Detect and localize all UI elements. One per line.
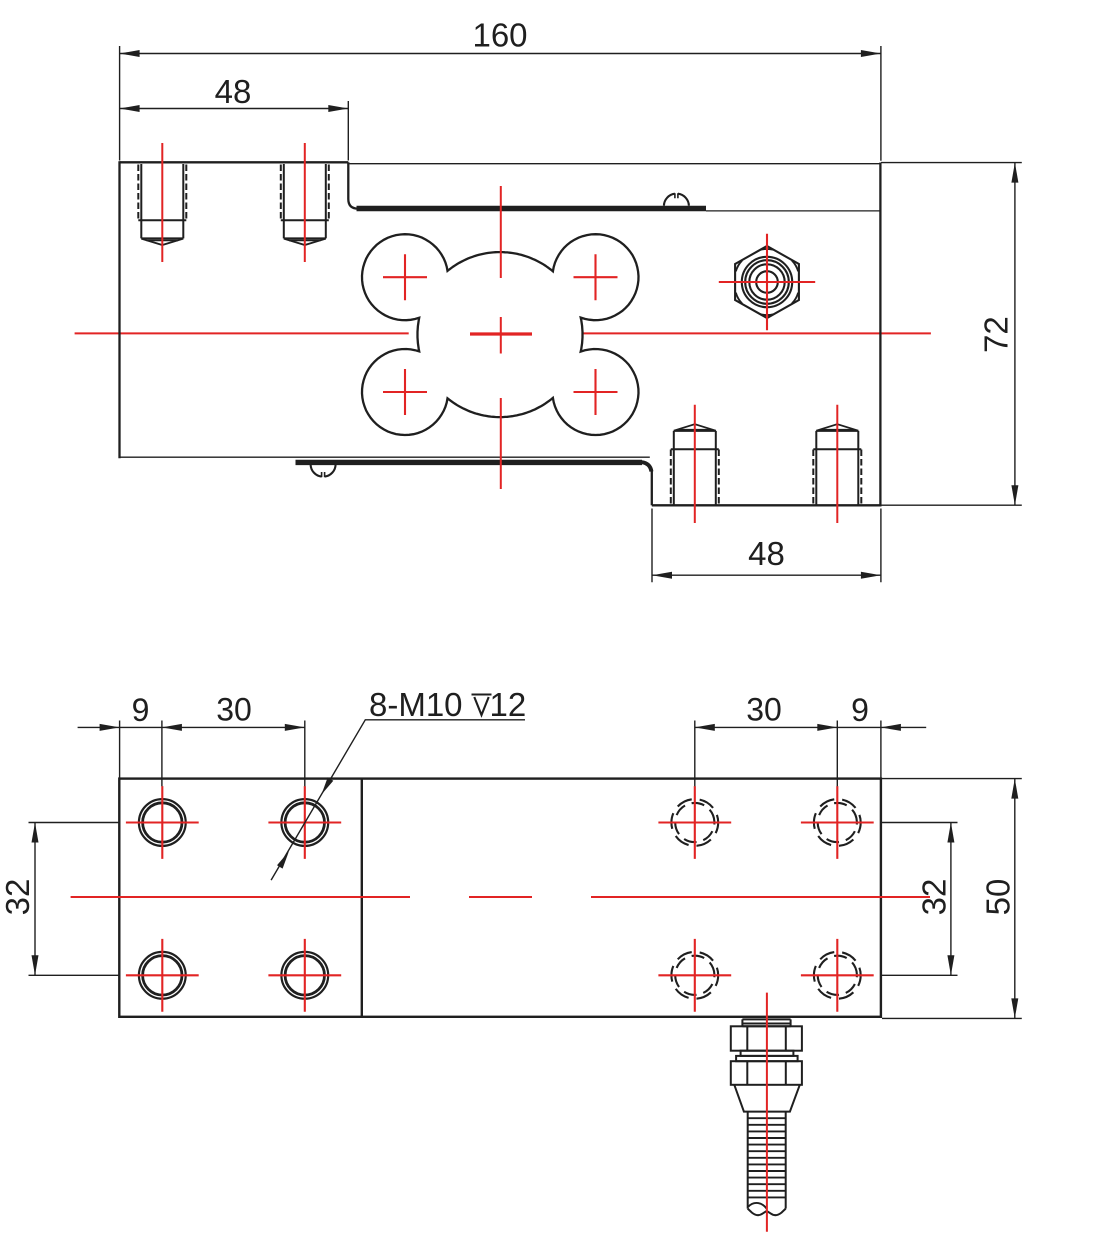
- body outline left block of side view: [120, 161, 882, 505]
- internal edge line of plan view: [361, 779, 363, 1017]
- cable seal bump on bottom slot: [311, 465, 336, 478]
- hidden hole plan top-right 2: [814, 799, 861, 846]
- centerline cross clover top-left hole: [383, 254, 427, 300]
- cable gland connector assembly below plan view: [731, 1019, 802, 1215]
- clover flexure cutout: [362, 234, 639, 435]
- centerline cross on gland nut: [719, 234, 815, 331]
- dimension 9 and 30 plan top-left: [78, 721, 305, 787]
- mounting screw left 2 (side view): [281, 164, 329, 245]
- hidden hole plan bottom-right 2: [814, 952, 861, 999]
- bottom gap slot thick bar: [296, 460, 643, 465]
- hidden hole plan bottom-right 1: [671, 952, 718, 999]
- hidden hole plan top-right 1: [671, 799, 718, 846]
- dimension 50 plan right overall: [882, 779, 1022, 1019]
- red horizontal centerline of plan view: [71, 896, 930, 898]
- dimension 48 bottom right: [652, 509, 881, 583]
- depth symbol: [472, 695, 492, 716]
- svg-text:50: 50: [980, 879, 1017, 916]
- svg-text:12: 12: [490, 686, 527, 723]
- bottom edge of left block (thin): [120, 456, 650, 458]
- svg-text:9: 9: [132, 692, 150, 728]
- cable gland hex nut (top view): [735, 246, 799, 318]
- top surface thin line of right block: [350, 163, 881, 165]
- tapped hole plan top-left 1: [139, 799, 186, 846]
- dimension 72 right height: [881, 163, 1022, 506]
- dimension 30 and 9 plan top-right: [695, 721, 926, 787]
- top gap slot thick bar: [357, 206, 707, 212]
- mounting screw right 2 (side view): [813, 424, 861, 505]
- dimension 160 top overall: [120, 46, 881, 161]
- dimension 32 plan left: [29, 823, 120, 976]
- svg-text:9: 9: [851, 692, 869, 728]
- centerline cross clover bottom-left hole: [383, 369, 427, 415]
- tapped hole plan top-left 2: [281, 799, 328, 846]
- svg-text:48: 48: [215, 73, 252, 110]
- dimension 32 plan right inner: [882, 823, 958, 976]
- svg-text:8-M10: 8-M10: [369, 686, 463, 723]
- vertical centerline through clover center: [500, 186, 502, 489]
- svg-text:32: 32: [0, 879, 36, 916]
- red centerline of connector: [766, 993, 768, 1232]
- svg-text:160: 160: [472, 17, 527, 54]
- svg-text:48: 48: [748, 535, 785, 572]
- cable seal bump on top slot: [664, 193, 689, 206]
- dimension 48 top left: [120, 101, 349, 161]
- plan view body rectangle: [119, 779, 881, 1017]
- svg-text:32: 32: [916, 879, 953, 916]
- mounting screw right 1 (side view): [671, 424, 719, 505]
- mounting screw left 1 (side view): [138, 164, 186, 245]
- thin gap line continuing right from top slot: [706, 210, 880, 212]
- svg-text:30: 30: [746, 692, 782, 728]
- wire: main red horizontal centerline of side view: [75, 332, 931, 334]
- horizontal centerline segment at clover center: [470, 334, 532, 336]
- tapped hole plan bottom-left 2: [281, 952, 328, 999]
- rounded corner bottom slot to step: [642, 462, 652, 471]
- svg-text:30: 30: [216, 692, 252, 728]
- svg-text:72: 72: [978, 316, 1015, 353]
- thread note 8-M10 depth 12 with leader: [271, 720, 525, 880]
- centerline cross clover top-right hole: [574, 254, 618, 300]
- tapped hole plan bottom-left 1: [139, 952, 186, 999]
- centerline cross clover bottom-right hole: [574, 369, 618, 415]
